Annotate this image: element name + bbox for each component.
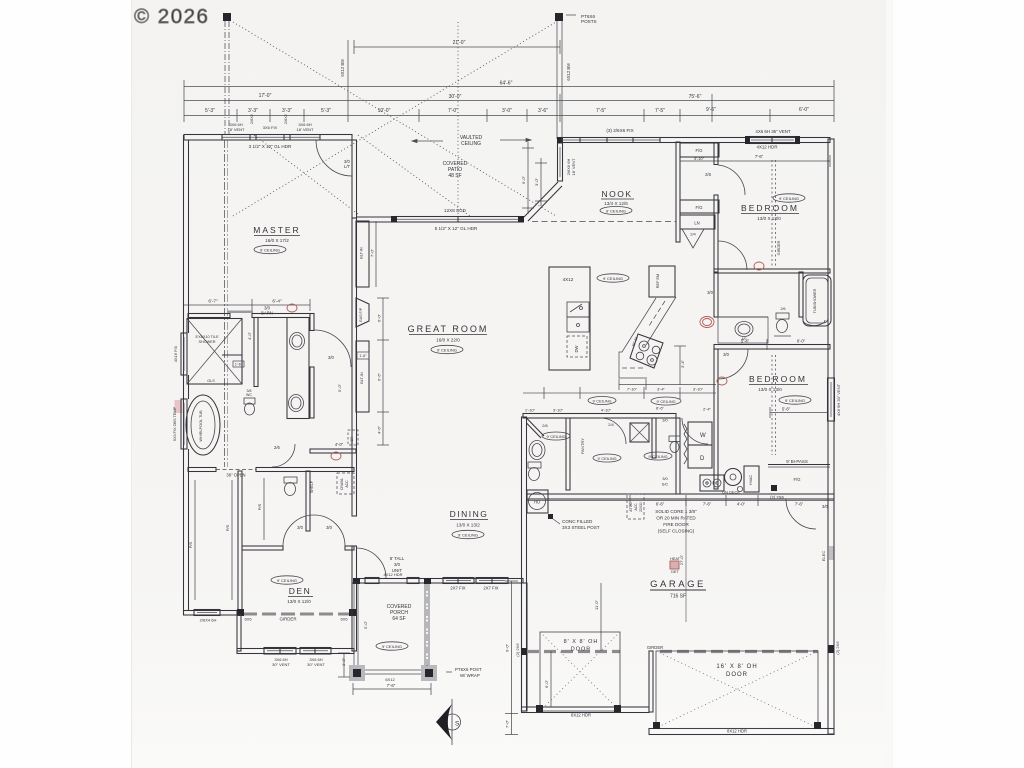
svg-text:9'-6": 9'-6"	[706, 107, 716, 113]
svg-text:3/6: 3/6	[247, 389, 252, 393]
svg-text:2/6X2: 2/6X2	[250, 114, 254, 124]
svg-text:DW: DW	[574, 345, 579, 352]
svg-text:716 SF: 716 SF	[670, 594, 686, 600]
svg-text:16/0 X 22/0: 16/0 X 22/0	[436, 338, 460, 343]
svg-text:2/4: 2/4	[608, 422, 614, 427]
svg-text:OR 20 MIN RATED: OR 20 MIN RATED	[656, 516, 696, 521]
svg-text:L/T: L/T	[344, 164, 350, 169]
svg-text:6'-4": 6'-4"	[272, 299, 282, 304]
svg-text:9' CEILING: 9' CEILING	[779, 196, 799, 201]
svg-text:CEILING: CEILING	[461, 141, 481, 147]
svg-text:3'-10": 3'-10"	[553, 408, 564, 413]
svg-text:9' CEILING: 9' CEILING	[597, 457, 616, 461]
svg-text:16/0 X 17/2: 16/0 X 17/2	[265, 238, 289, 243]
svg-text:MASTER: MASTER	[253, 225, 300, 235]
svg-text:7'-6": 7'-6"	[795, 502, 804, 507]
svg-text:GAS F/P: GAS F/P	[359, 307, 363, 322]
svg-text:8X12 HDR: 8X12 HDR	[571, 713, 591, 718]
svg-text:3'-6": 3'-6"	[538, 108, 548, 114]
svg-text:ELEC: ELEC	[821, 551, 826, 562]
svg-text:3/0: 3/0	[723, 352, 729, 357]
svg-text:9' BI-PASS: 9' BI-PASS	[786, 459, 808, 464]
svg-text:ACC: ACC	[634, 503, 638, 511]
svg-text:9' CEILING: 9' CEILING	[458, 532, 478, 537]
svg-text:8' X 8' OH: 8' X 8' OH	[564, 639, 599, 645]
svg-text:3X3 STEEL POST: 3X3 STEEL POST	[562, 525, 600, 530]
svg-text:GLS: GLS	[207, 379, 215, 383]
svg-text:(2) 2X6: (2) 2X6	[835, 641, 840, 655]
svg-text:GARAGE: GARAGE	[650, 579, 706, 590]
svg-text:BLT-IN: BLT-IN	[360, 247, 364, 259]
svg-text:7'-5": 7'-5"	[655, 108, 665, 114]
svg-text:3/0: 3/0	[707, 290, 713, 295]
svg-text:7'-6": 7'-6"	[387, 683, 396, 688]
svg-text:4X12 HDR: 4X12 HDR	[383, 572, 402, 577]
svg-text:6'-7": 6'-7"	[208, 299, 218, 304]
svg-text:13/0 X 13/2: 13/0 X 13/2	[456, 523, 480, 528]
svg-text:S: S	[455, 721, 460, 728]
svg-text:1'-6": 1'-6"	[235, 363, 243, 367]
svg-text:9'-0": 9'-0"	[521, 175, 526, 184]
svg-text:2'-4": 2'-4"	[703, 407, 712, 412]
svg-text:3/0: 3/0	[297, 525, 303, 530]
svg-text:4'-10": 4'-10"	[601, 408, 612, 413]
svg-text:12X8 SGD: 12X8 SGD	[444, 208, 467, 213]
svg-text:7'-0": 7'-0"	[370, 248, 375, 257]
svg-text:17'-0": 17'-0"	[259, 93, 272, 99]
svg-text:6'-6": 6'-6"	[377, 372, 382, 381]
svg-text:9' CEILING: 9' CEILING	[785, 398, 805, 403]
svg-text:2/6: 2/6	[705, 172, 711, 177]
svg-text:9' CEILING: 9' CEILING	[603, 276, 623, 281]
svg-text:D: D	[700, 456, 705, 462]
svg-text:30" VENT: 30" VENT	[307, 662, 325, 667]
svg-text:21'-0": 21'-0"	[453, 40, 466, 46]
svg-text:3/0: 3/0	[662, 476, 668, 481]
svg-text:DEN: DEN	[289, 586, 311, 596]
svg-text:4X16 FIX: 4X16 FIX	[173, 345, 178, 362]
svg-text:2/6: 2/6	[781, 307, 786, 311]
svg-text:3'-10": 3'-10"	[693, 387, 704, 392]
svg-text:1'-10": 1'-10"	[525, 408, 536, 413]
svg-text:DOOR: DOOR	[726, 672, 748, 678]
svg-text:8X12 HDR: 8X12 HDR	[727, 729, 747, 734]
svg-text:5'-6": 5'-6"	[782, 407, 791, 412]
svg-text:3'-4": 3'-4"	[657, 387, 666, 392]
svg-text:GIRDER: GIRDER	[777, 240, 781, 255]
svg-text:W/ WRAP: W/ WRAP	[460, 673, 480, 678]
svg-text:F/G: F/G	[696, 148, 703, 153]
svg-text:9' CEILING: 9' CEILING	[277, 578, 297, 583]
svg-text:BEDROOM: BEDROOM	[741, 203, 799, 213]
svg-text:3 1/2" X 12" GL HDR: 3 1/2" X 12" GL HDR	[249, 144, 292, 149]
svg-text:DET: DET	[671, 570, 679, 574]
svg-text:2/4: 2/4	[690, 232, 696, 237]
svg-text:3'-0": 3'-0"	[341, 657, 346, 666]
svg-text:WC: WC	[246, 393, 252, 397]
svg-text:18' VENT: 18' VENT	[571, 158, 576, 176]
svg-text:FIRE DOOR: FIRE DOOR	[663, 522, 689, 527]
svg-text:BLT-IN: BLT-IN	[360, 372, 364, 384]
svg-text:13/4 X 12/6: 13/4 X 12/6	[604, 201, 628, 206]
svg-text:PT6X6 POST: PT6X6 POST	[455, 667, 482, 672]
svg-text:5'-4": 5'-4"	[741, 339, 750, 344]
svg-text:5'-0": 5'-0"	[363, 620, 368, 629]
svg-text:F/G: F/G	[794, 477, 801, 482]
svg-text:SHOWER: SHOWER	[198, 340, 215, 344]
svg-text:22X30: 22X30	[639, 502, 643, 512]
svg-text:3'-3": 3'-3"	[282, 108, 292, 114]
svg-text:2X7 FIX: 2X7 FIX	[450, 586, 465, 591]
svg-text:3'-10": 3'-10"	[694, 156, 705, 161]
svg-text:S/C: S/C	[662, 482, 669, 487]
svg-text:6X6: 6X6	[244, 617, 252, 622]
svg-text:P/S: P/S	[257, 503, 262, 510]
svg-text:1'-6": 1'-6"	[359, 354, 367, 358]
svg-text:7'-6": 7'-6"	[703, 502, 712, 507]
svg-text:4X12 HDR: 4X12 HDR	[757, 145, 778, 150]
svg-text:5 1/2" X 12" GL HDR: 5 1/2" X 12" GL HDR	[435, 226, 478, 231]
svg-text:64'-6": 64'-6"	[500, 81, 513, 87]
svg-text:GIRDER: GIRDER	[279, 617, 296, 622]
svg-text:TUB/SHOWER: TUB/SHOWER	[813, 288, 817, 313]
svg-text:13/0 X 13/0: 13/0 X 13/0	[758, 387, 782, 392]
svg-text:27'-0": 27'-0"	[679, 554, 684, 565]
svg-text:4'-0": 4'-0"	[737, 502, 746, 507]
svg-text:18' VENT: 18' VENT	[228, 127, 246, 132]
svg-text:NOOK: NOOK	[601, 189, 632, 199]
svg-text:3/0: 3/0	[328, 355, 334, 360]
svg-text:4X6 6H 36" VENT: 4X6 6H 36" VENT	[755, 129, 791, 134]
svg-text:(SELF CLOSING): (SELF CLOSING)	[658, 529, 695, 534]
svg-text:2X7 FIX: 2X7 FIX	[483, 586, 498, 591]
svg-text:2/6: 2/6	[542, 423, 548, 428]
svg-text:6'-6": 6'-6"	[656, 406, 665, 411]
svg-text:4X6 6H 30" VENT: 4X6 6H 30" VENT	[836, 383, 841, 416]
svg-text:13/0 X 13/0: 13/0 X 13/0	[757, 216, 781, 221]
svg-text:ATTIC: ATTIC	[629, 502, 633, 512]
svg-text:2/6X2: 2/6X2	[284, 114, 288, 124]
svg-text:6'-0": 6'-0"	[797, 339, 806, 344]
svg-text:6'-0": 6'-0"	[544, 679, 549, 688]
svg-text:GIRDER: GIRDER	[647, 645, 663, 650]
svg-text:9' CEILING: 9' CEILING	[437, 347, 457, 352]
svg-text:P/S: P/S	[225, 524, 230, 531]
svg-text:SOLID CORE 1 3/8": SOLID CORE 1 3/8"	[655, 509, 697, 514]
svg-text:3'-0": 3'-0"	[534, 177, 539, 186]
svg-text:7'-6": 7'-6"	[755, 154, 764, 159]
svg-text:3/0: 3/0	[394, 562, 401, 567]
svg-text:© 2026: © 2026	[134, 5, 209, 28]
svg-text:48 SF: 48 SF	[448, 173, 461, 179]
svg-text:(2) 2X6: (2) 2X6	[515, 643, 520, 657]
svg-text:6'-0": 6'-0"	[799, 107, 809, 113]
svg-text:7'-5": 7'-5"	[596, 108, 606, 114]
svg-text:PANTRY: PANTRY	[580, 438, 585, 454]
svg-text:(2) 2X6: (2) 2X6	[770, 495, 784, 500]
svg-text:6X12 BM: 6X12 BM	[340, 59, 345, 77]
svg-text:13/0 X 12/0: 13/0 X 12/0	[287, 599, 311, 604]
svg-text:6X12 BM: 6X12 BM	[566, 63, 571, 81]
svg-text:9' CEILING: 9' CEILING	[546, 435, 565, 439]
svg-text:W: W	[700, 433, 706, 439]
svg-text:2/6X4 6H: 2/6X4 6H	[200, 618, 217, 623]
svg-text:9' CEILING: 9' CEILING	[606, 208, 626, 213]
svg-text:3'-0": 3'-0"	[502, 108, 512, 114]
svg-text:CONC FILLED: CONC FILLED	[562, 519, 593, 524]
svg-text:ACC: ACC	[345, 480, 349, 488]
svg-text:7'-0": 7'-0"	[448, 108, 458, 114]
svg-text:WHIRLPOOL TUB: WHIRLPOOL TUB	[199, 410, 203, 442]
svg-text:5X3 FIX OBS TEMP: 5X3 FIX OBS TEMP	[173, 406, 177, 441]
svg-text:6'-6": 6'-6"	[656, 502, 665, 507]
svg-text:9' CEILING: 9' CEILING	[260, 247, 280, 252]
svg-text:9'-0": 9'-0"	[505, 643, 510, 652]
svg-text:GREAT ROOM: GREAT ROOM	[408, 324, 489, 334]
svg-text:5'-3": 5'-3"	[321, 108, 331, 114]
svg-text:5'X6X10 TILE: 5'X6X10 TILE	[195, 335, 219, 339]
svg-text:9' CEILING: 9' CEILING	[656, 400, 675, 404]
svg-text:3X6 FIX: 3X6 FIX	[263, 125, 278, 130]
svg-text:75'-6": 75'-6"	[689, 94, 702, 100]
svg-text:P/S: P/S	[188, 541, 193, 548]
svg-text:6'-0": 6'-0"	[377, 313, 382, 322]
svg-text:30" VENT: 30" VENT	[272, 662, 290, 667]
svg-text:HU: HU	[534, 500, 540, 505]
svg-text:HVAC: HVAC	[749, 475, 753, 486]
svg-text:BEDROOM: BEDROOM	[749, 374, 807, 384]
svg-text:9' CEILING: 9' CEILING	[648, 455, 667, 459]
svg-text:30'-0": 30'-0"	[449, 94, 462, 100]
svg-text:7'-0": 7'-0"	[505, 719, 510, 728]
svg-text:5'-0": 5'-0"	[337, 383, 342, 392]
svg-text:4'-0": 4'-0"	[247, 331, 252, 340]
svg-text:5'-3": 5'-3"	[205, 108, 215, 114]
svg-text:3'-4": 3'-4"	[680, 359, 685, 368]
svg-text:7'-10": 7'-10"	[627, 387, 638, 392]
svg-text:CRAWL: CRAWL	[340, 478, 344, 490]
svg-text:3'-3": 3'-3"	[248, 108, 258, 114]
svg-text:DOOR: DOOR	[571, 647, 592, 653]
svg-text:36" OPEN: 36" OPEN	[226, 473, 245, 478]
svg-text:DINING: DINING	[450, 509, 489, 519]
svg-text:POSTS: POSTS	[581, 19, 597, 24]
svg-text:4X12: 4X12	[563, 277, 574, 282]
svg-text:2/6: 2/6	[274, 445, 280, 450]
svg-text:9' CEILING: 9' CEILING	[592, 399, 611, 403]
svg-text:18' VENT: 18' VENT	[297, 127, 315, 132]
svg-text:64 SF: 64 SF	[392, 616, 405, 622]
svg-text:11'-0": 11'-0"	[594, 599, 599, 609]
svg-text:16' X 8' OH: 16' X 8' OH	[716, 664, 757, 670]
svg-text:8' TALL: 8' TALL	[390, 556, 405, 561]
svg-text:4'-0": 4'-0"	[335, 442, 344, 447]
svg-text:4'-6": 4'-6"	[377, 425, 382, 434]
svg-text:3/0: 3/0	[326, 525, 332, 530]
svg-text:6X12: 6X12	[385, 677, 395, 682]
svg-text:6X6: 6X6	[340, 617, 348, 622]
svg-text:LN: LN	[694, 221, 699, 226]
svg-text:F/G: F/G	[696, 205, 703, 210]
svg-text:SHELF: SHELF	[310, 480, 314, 493]
svg-text:REF EM: REF EM	[656, 274, 660, 288]
svg-text:9' CEILING: 9' CEILING	[382, 644, 402, 649]
svg-text:(3) 2/6X6 FIX: (3) 2/6X6 FIX	[606, 128, 633, 133]
